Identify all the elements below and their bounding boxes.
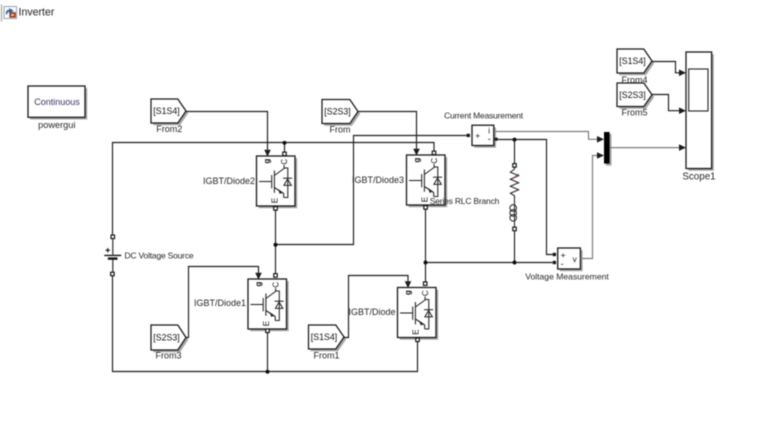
- DC source - terminal port: [111, 272, 115, 276]
- wire Current Measurement i output to mux input 1: [494, 132, 598, 140]
- junction node RLC bottom on midpoint line: [513, 261, 517, 265]
- IGBT/Diode block IGBT/Diode3: [407, 155, 448, 207]
- svg-text:IGBT/Diode: IGBT/Diode: [348, 307, 395, 317]
- arrowhead into Scope1 input 3: [679, 144, 686, 151]
- IGBT/Diode block IGBT/Diode: [398, 288, 439, 340]
- wire Series RLC Branch bottom to right-leg midpoint line: [514, 231, 516, 263]
- wire IGBT/Diode1 emitter down to bottom bus: [267, 331, 269, 372]
- goto-tag source block From2: [151, 99, 188, 125]
- DC Voltage Source battery symbol: [104, 239, 121, 273]
- Current Measurement block: [472, 125, 496, 148]
- svg-text:Scope1: Scope1: [682, 172, 715, 183]
- tab separator line: [1, 5, 3, 22]
- arrowhead into Scope1 input 1: [679, 70, 686, 77]
- svg-text:[S1S4]: [S1S4]: [153, 106, 179, 116]
- port IGBT/Diode1 E: [266, 329, 270, 333]
- junction node right-leg midpoint: [424, 261, 428, 265]
- svg-text:[S2S3]: [S2S3]: [324, 107, 350, 117]
- svg-text:[S2S3]: [S2S3]: [153, 333, 179, 343]
- port IGBT/Diode E: [416, 338, 420, 342]
- svg-text:E: E: [420, 197, 429, 202]
- IGBT/Diode block IGBT/Diode1: [248, 279, 289, 331]
- port Series RLC Branch top: [513, 164, 517, 168]
- port IGBT/Diode1 C: [274, 274, 278, 278]
- Voltage Measurement block: [558, 248, 583, 271]
- svg-text:powergui: powergui: [38, 120, 75, 130]
- wire From1 to IGBT/Diode gate: [344, 276, 408, 338]
- wire DC+ up and top bus to IGBT/Diode3 collector: [113, 143, 435, 236]
- svg-text:Current Measurement: Current Measurement: [444, 110, 524, 120]
- junction node bottom bus at IGBT/Diode1 emitter: [266, 370, 270, 374]
- port IGBT/Diode2 E: [274, 207, 278, 211]
- DC source + terminal port: [111, 235, 115, 239]
- Series RLC Branch resistor: [510, 169, 518, 204]
- port Voltage Measurement + (connected): [553, 253, 556, 256]
- arrowhead into IGBT/Diode2 gate: [264, 150, 271, 157]
- svg-text:From3: From3: [155, 350, 181, 360]
- wire branch top bus down to IGBT/Diode2 collector: [284, 143, 286, 153]
- goto-tag source block From: [322, 100, 360, 126]
- port Series RLC Branch bottom: [513, 227, 517, 231]
- svg-text:[S1S4]: [S1S4]: [619, 56, 645, 66]
- wire right-leg midpoint: IGBT/Diode3 E down to IGBT/Diode C: [425, 209, 427, 282]
- svg-text:-: -: [561, 259, 564, 269]
- svg-text:Series RLC Branch: Series RLC Branch: [430, 196, 500, 206]
- junction node left-leg midpoint: [274, 243, 278, 247]
- svg-text:IGBT/Diode3: IGBT/Diode3: [352, 175, 404, 185]
- arrowhead into mux input 1: [597, 136, 604, 143]
- wire Voltage Measurement v output to mux input 2: [580, 156, 597, 259]
- wire From to IGBT/Diode3 gate: [358, 112, 417, 149]
- arrowhead into mux input 2: [597, 152, 604, 159]
- svg-text:E: E: [270, 198, 279, 203]
- arrowhead into IGBT/Diode3 gate: [413, 149, 420, 156]
- svg-text:C: C: [271, 282, 280, 288]
- port IGBT/Diode2 C: [283, 152, 287, 156]
- svg-text:IGBT/Diode2: IGBT/Diode2: [203, 176, 255, 186]
- svg-text:From: From: [330, 124, 351, 134]
- svg-text:From5: From5: [621, 108, 647, 118]
- wire From3 to IGBT/Diode1 gate: [186, 267, 259, 338]
- model tab icon: [4, 7, 17, 19]
- svg-text:Voltage Measurement: Voltage Measurement: [525, 272, 609, 282]
- port Current Measurement - output terminal: [495, 138, 498, 141]
- svg-text:g: g: [263, 159, 272, 164]
- port IGBT/Diode3 E: [424, 206, 428, 210]
- svg-text:g: g: [404, 290, 413, 295]
- svg-text:E: E: [411, 329, 420, 334]
- svg-text:C: C: [280, 159, 289, 165]
- wire DC- down to bottom bus and to IGBT/Diode emitter: [113, 276, 418, 372]
- wire Current Measurement - to RLC top and Voltage Measurement +: [498, 140, 553, 255]
- svg-text:E: E: [262, 321, 271, 326]
- arrowhead into IGBT/Diode gate: [405, 281, 412, 288]
- svg-text:From2: From2: [156, 124, 182, 134]
- svg-text:Continuous: Continuous: [34, 97, 80, 107]
- wire load tap from left-leg midpoint to Current Measurement +: [276, 136, 467, 245]
- goto-tag source block From1: [309, 325, 347, 351]
- wire From2 to IGBT/Diode2 gate: [186, 112, 268, 150]
- wire mux output to Scope1 input 3: [610, 147, 680, 149]
- svg-text:g: g: [254, 282, 263, 287]
- junction node on CM- wire above RLC: [513, 138, 517, 142]
- port IGBT/Diode C: [423, 282, 427, 286]
- Scope1 block: [686, 52, 714, 171]
- wire From5 to Scope1 input 2: [652, 95, 679, 111]
- powergui block (Continuous): [28, 86, 87, 120]
- goto-tag source block From5: [617, 83, 654, 109]
- Series RLC Branch inductor: [510, 204, 517, 227]
- wire left-leg midpoint: IGBT/Diode2 E down to IGBT/Diode1 C: [275, 210, 277, 274]
- svg-text:[S1S4]: [S1S4]: [311, 332, 337, 342]
- svg-text:C: C: [421, 290, 430, 296]
- svg-text:-: -: [488, 134, 491, 144]
- svg-text:DC Voltage Source: DC Voltage Source: [125, 251, 194, 261]
- svg-text:C: C: [430, 158, 439, 164]
- port IGBT/Diode3 C: [432, 151, 436, 155]
- svg-text:g: g: [413, 158, 422, 163]
- mux block: [604, 132, 612, 166]
- wire From4 to Scope1 input 1: [652, 62, 679, 73]
- junction node on top bus at IGBT/Diode2 collector: [283, 141, 287, 145]
- svg-text:From1: From1: [313, 350, 339, 360]
- red tick mark on resistor: [515, 174, 519, 177]
- arrowhead into IGBT/Diode1 gate: [255, 273, 262, 280]
- arrowhead into Scope1 input 2: [679, 107, 686, 114]
- svg-text:IGBT/Diode1: IGBT/Diode1: [194, 298, 246, 308]
- svg-text:+: +: [475, 130, 480, 140]
- wire down from CM- wire to Series RLC Branch top: [514, 140, 516, 170]
- goto-tag source block From3: [151, 325, 188, 352]
- IGBT/Diode block IGBT/Diode2: [257, 156, 298, 208]
- svg-text:[S2S3]: [S2S3]: [619, 90, 645, 100]
- port Current Measurement + (connected): [467, 134, 470, 137]
- wire right-leg midpoint to Voltage Measurement -: [426, 262, 553, 264]
- goto-tag source block From4: [617, 49, 654, 75]
- svg-text:Inverter: Inverter: [19, 7, 55, 19]
- port Voltage Measurement - (connected): [553, 261, 556, 264]
